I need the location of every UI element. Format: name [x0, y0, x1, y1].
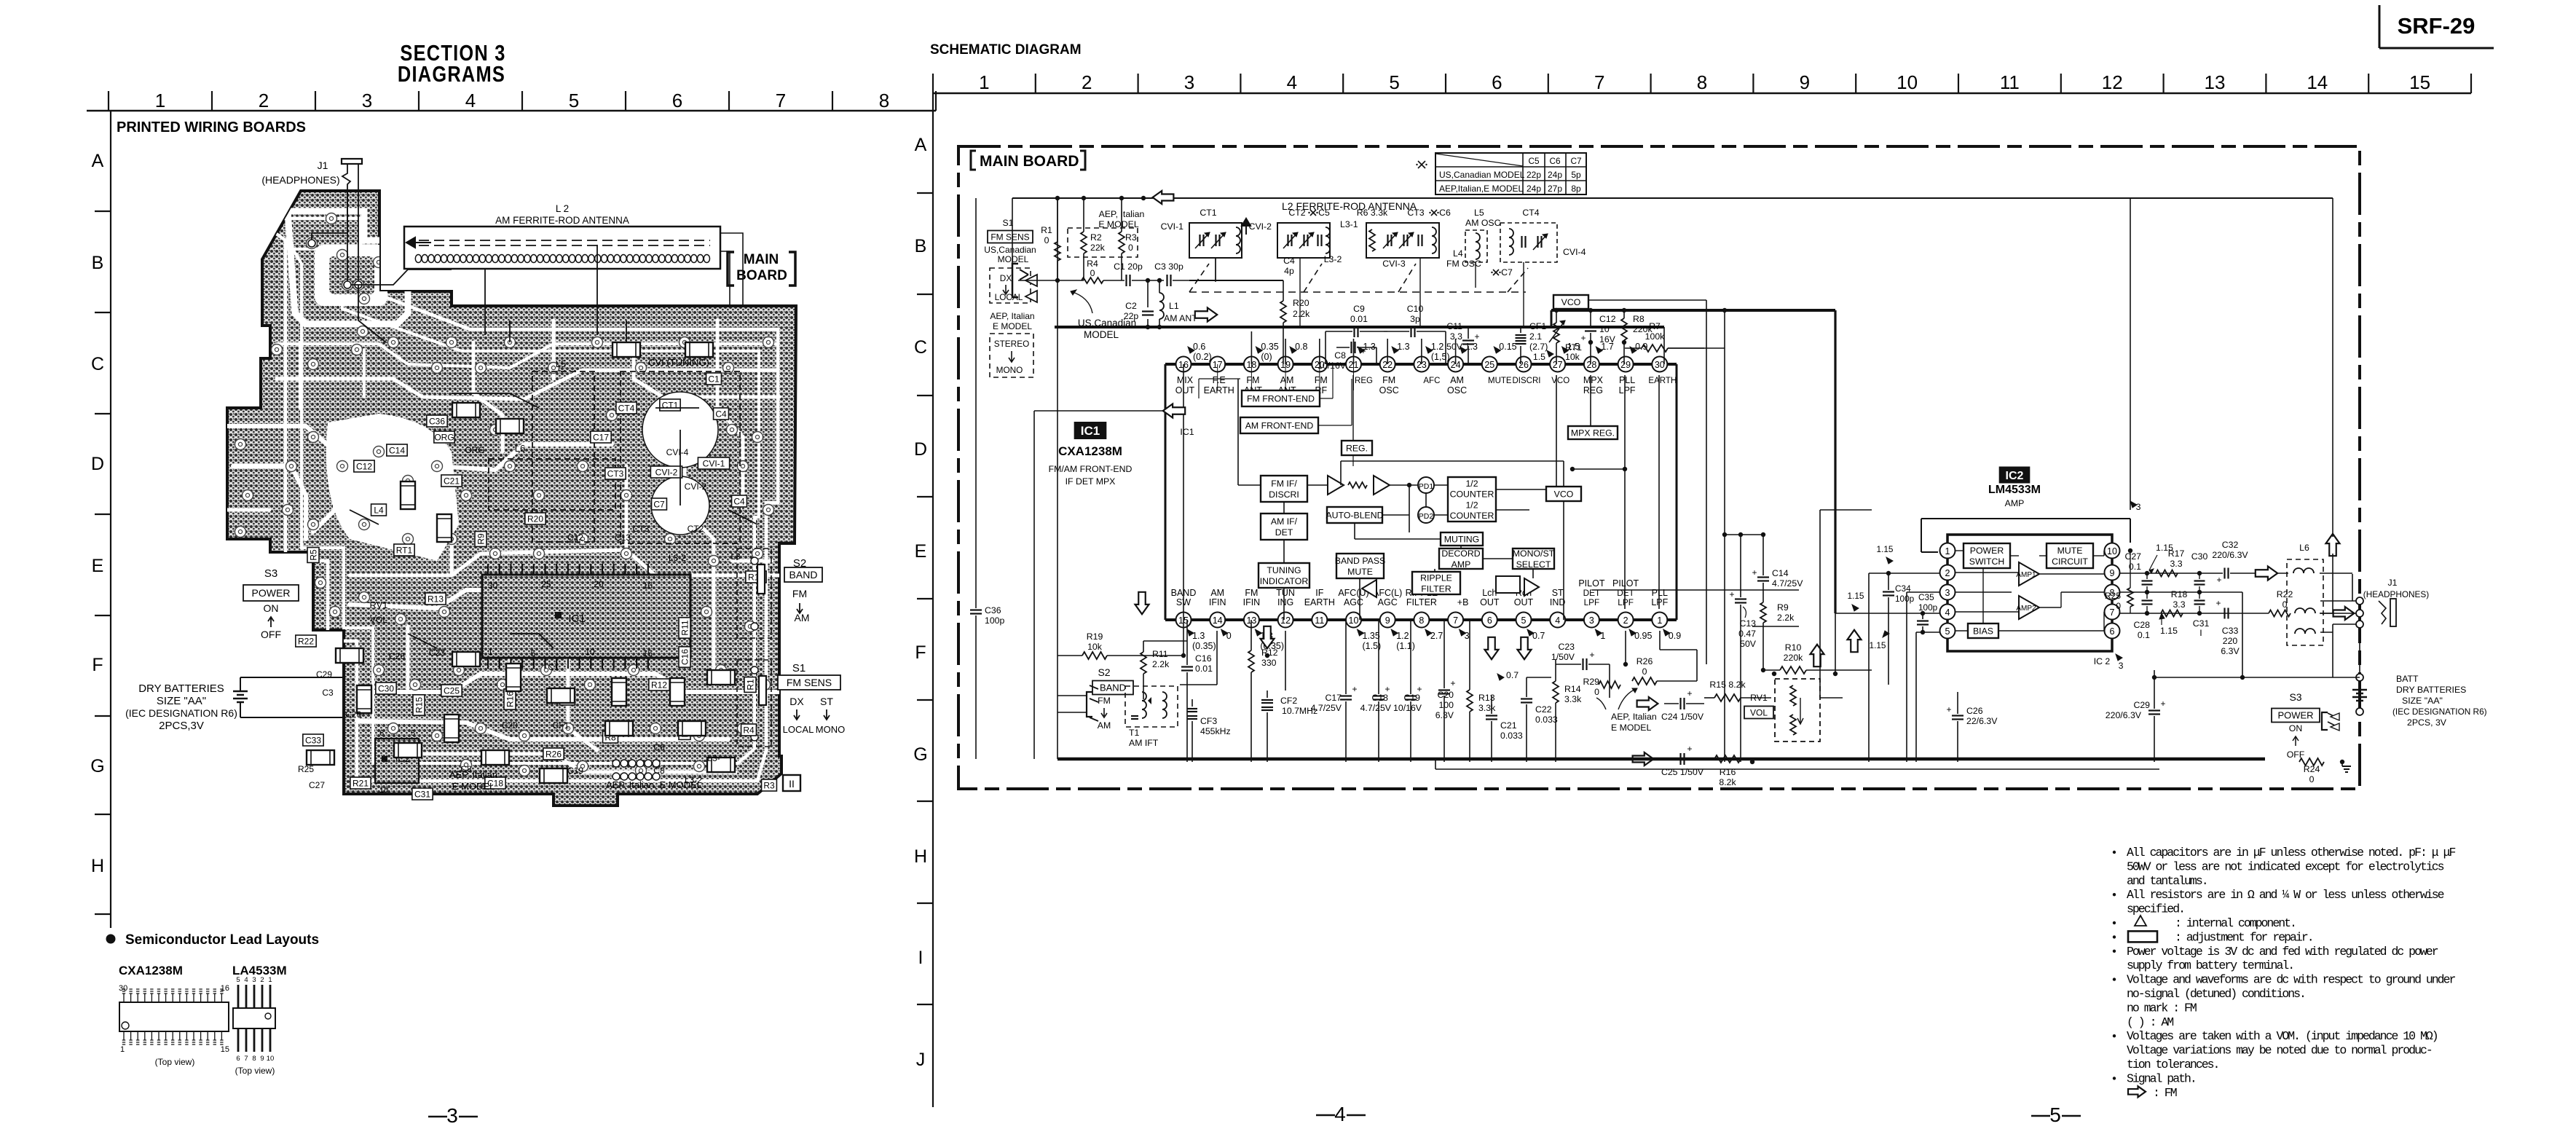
transformer T1 AM IFT: [1125, 686, 1178, 748]
svg-text:2.2k: 2.2k: [1293, 309, 1310, 319]
svg-text:+B: +B: [1457, 597, 1469, 607]
svg-text:AM IFT: AM IFT: [1129, 738, 1159, 748]
capacitor C16 0.01: [1181, 620, 1213, 762]
svg-text:DET: DET: [1617, 588, 1634, 598]
svg-text:330: 330: [1261, 658, 1277, 668]
electrolytic C17 4.7/25V: [1311, 620, 1358, 762]
svg-text:I: I: [2199, 628, 2202, 638]
svg-text:C13: C13: [1739, 618, 1756, 629]
svg-text:2: 2: [260, 976, 264, 984]
svg-text:EARTH: EARTH: [1648, 377, 1677, 385]
resistor R19 10k: [1057, 632, 1183, 659]
svg-text:C6: C6: [653, 742, 665, 752]
svg-text:C29: C29: [2133, 700, 2150, 710]
svg-text:R14: R14: [1564, 684, 1581, 694]
svg-text:R1: R1: [1041, 225, 1052, 235]
svg-text:OSC: OSC: [1447, 385, 1467, 396]
resistor R9 2.2k: [1760, 599, 1795, 672]
capacitor C22 0.033: [1521, 677, 1558, 762]
svg-text:1.5: 1.5: [1533, 352, 1545, 362]
svg-text:+: +: [1946, 704, 1951, 715]
svg-text:F.E: F.E: [1213, 375, 1226, 385]
svg-text:LOCAL: LOCAL: [995, 292, 1023, 302]
wire pin27 column: [1556, 375, 1557, 487]
svg-text:3.3k: 3.3k: [1478, 703, 1496, 713]
svg-text:J: J: [916, 1050, 926, 1070]
svg-text:220/6.3V: 220/6.3V: [2212, 550, 2248, 560]
svg-text:MUTE: MUTE: [1488, 377, 1512, 385]
wire stubs tuning blocks: [1216, 258, 1524, 327]
svg-text:15: 15: [2409, 71, 2430, 93]
svg-text:3: 3: [252, 976, 256, 984]
svg-text:IC1: IC1: [1180, 427, 1194, 437]
IC1 internal: VCO box: [1546, 487, 1581, 501]
svg-text:PILOT: PILOT: [1612, 578, 1639, 589]
svg-text:12: 12: [2102, 71, 2123, 93]
svg-text:CT4: CT4: [1522, 208, 1539, 218]
svg-text:6: 6: [379, 729, 384, 738]
svg-text:DRY BATTERIES: DRY BATTERIES: [138, 682, 224, 695]
svg-text:R20: R20: [1293, 298, 1309, 308]
svg-text:10/16V: 10/16V: [1317, 361, 1347, 371]
ceramic filter CF2 10.7MHz: [1261, 691, 1317, 762]
svg-text:AM: AM: [795, 612, 810, 623]
IC1 internal: blend triangle: [1362, 580, 1376, 597]
svg-text:+: +: [1687, 744, 1692, 754]
svg-text:D: D: [91, 454, 104, 474]
svg-text:L2 FERRITE-ROD ANTENNA: L2 FERRITE-ROD ANTENNA: [1282, 200, 1417, 212]
svg-text:CT4: CT4: [618, 403, 635, 413]
svg-text:0.15: 0.15: [1499, 342, 1516, 352]
svg-text:LPF: LPF: [1619, 385, 1636, 396]
svg-text:DET: DET: [1275, 527, 1293, 538]
svg-text:PD1: PD1: [1419, 482, 1434, 491]
svg-text:VCO: VCO: [1551, 377, 1569, 385]
svg-text:All resistors are in Ω and ¼: All resistors are in Ω and ¼ W or less u…: [2127, 888, 2444, 902]
wire below ground bus: [1057, 198, 2159, 769]
svg-text:AM: AM: [1280, 375, 1294, 385]
svg-text:R9: R9: [1777, 602, 1789, 613]
svg-text:100p: 100p: [1918, 602, 1938, 613]
svg-text:Voltage and waveforms are dc w: Voltage and waveforms are dc with respec…: [2127, 973, 2455, 987]
IC1 bottom pins 15-1: [1171, 578, 1669, 628]
svg-text:1.3: 1.3: [1192, 631, 1205, 641]
svg-text:15: 15: [221, 1045, 229, 1054]
capacitor C11 3.3 50V: [1446, 321, 1479, 364]
svg-text:Lch: Lch: [1482, 588, 1497, 598]
signal arrow down (fm ifin): [1261, 626, 1275, 648]
resistor R24 0: [2299, 758, 2342, 784]
svg-text:C26: C26: [345, 709, 361, 720]
resistor R10 220k: [1763, 642, 1872, 674]
capacitor C3 30p: [1154, 261, 1189, 286]
svg-text:(HEADPHONES): (HEADPHONES): [261, 174, 339, 186]
svg-text:10/16V: 10/16V: [1393, 703, 1422, 713]
svg-text:PLL: PLL: [1619, 375, 1635, 385]
signal arrow before C24: [1637, 697, 1658, 710]
svg-text:C1 20p: C1 20p: [1114, 261, 1143, 272]
svg-text:7: 7: [1453, 615, 1458, 626]
svg-text:Semiconductor Lead Layouts: Semiconductor Lead Layouts: [125, 932, 319, 948]
svg-text:C2: C2: [1125, 301, 1137, 311]
electrolytic C32 220/6.3V: [2212, 540, 2248, 585]
svg-text:14: 14: [2307, 71, 2328, 93]
main board dashed outline: [958, 146, 2360, 789]
svg-text:5: 5: [411, 729, 415, 738]
svg-text:1: 1: [1600, 631, 1605, 641]
svg-text:R29: R29: [1583, 677, 1599, 687]
svg-text:0.7: 0.7: [1532, 631, 1545, 641]
potentiometer RT1 10k: [1533, 308, 1582, 364]
long interconnect wires: [958, 198, 2029, 764]
svg-text:TUN: TUN: [1276, 588, 1295, 598]
svg-text:LPF: LPF: [1651, 597, 1668, 607]
svg-text:3: 3: [2136, 502, 2141, 512]
svg-text:CXA1238M: CXA1238M: [1058, 444, 1122, 458]
svg-text:R26: R26: [545, 749, 562, 759]
svg-text:AMP: AMP: [1452, 559, 1471, 570]
page number 5: [2031, 1103, 2081, 1126]
svg-text:0.9: 0.9: [1635, 342, 1647, 352]
svg-text:STEREO: STEREO: [994, 339, 1030, 349]
svg-text:LOCAL: LOCAL: [783, 724, 814, 735]
signal arrow down (band sw): [1135, 592, 1149, 614]
jumper wires on wiring board: [350, 233, 757, 648]
svg-text:CVI (TUNING): CVI (TUNING): [648, 357, 709, 368]
svg-text:(HEADPHONES): (HEADPHONES): [2363, 589, 2430, 599]
svg-text:OUT: OUT: [1514, 597, 1534, 607]
svg-text:6: 6: [1487, 615, 1492, 626]
svg-text:3.3: 3.3: [2173, 599, 2185, 610]
svg-text:MUTE: MUTE: [2057, 546, 2083, 556]
svg-text:22p: 22p: [1527, 170, 1541, 180]
variable capacitor CV1 (tuning) box on wiring board: [621, 357, 740, 543]
svg-text:CVI-2: CVI-2: [685, 481, 707, 492]
wire pin28 column: [1590, 375, 1591, 426]
svg-text:(0.2): (0.2): [1193, 352, 1212, 362]
svg-text:C25 1/50V: C25 1/50V: [1661, 767, 1704, 777]
resistor R26 0: [1632, 656, 1657, 685]
switch S3 POWER label (left board): [243, 567, 299, 640]
svg-text:LA4533M: LA4533M: [232, 964, 287, 977]
svg-text:AM FERRITE-ROD ANTENNA: AM FERRITE-ROD ANTENNA: [495, 215, 629, 226]
svg-text:E MODEL: E MODEL: [1611, 723, 1652, 733]
svg-text:C32: C32: [2222, 540, 2239, 550]
svg-text:16: 16: [643, 581, 653, 591]
svg-text:MAIN BOARD: MAIN BOARD: [980, 153, 1079, 170]
svg-text:and tantalums.: and tantalums.: [2127, 874, 2207, 888]
svg-text:L4: L4: [374, 505, 384, 515]
svg-text:455kHz: 455kHz: [1200, 726, 1231, 736]
svg-text:REG.: REG.: [1346, 443, 1368, 453]
svg-text:10k: 10k: [1087, 642, 1103, 652]
svg-text:R19: R19: [1087, 632, 1103, 642]
svg-text:R26: R26: [1636, 656, 1653, 666]
svg-text:SIZE "AA": SIZE "AA": [2402, 696, 2443, 706]
svg-text:R18: R18: [2171, 589, 2188, 599]
svg-text:220k: 220k: [1784, 653, 1804, 663]
svg-text:E: E: [92, 556, 104, 576]
svg-text:7: 7: [2110, 607, 2115, 618]
inductor L6 dashed box: [2287, 543, 2323, 645]
svg-text:All capacitors are in μF unles: All capacitors are in μF unless otherwis…: [2127, 846, 2455, 859]
svg-text:MPX REG.: MPX REG.: [1571, 428, 1615, 438]
svg-text:6.3V: 6.3V: [2221, 646, 2240, 656]
AM ferrite-rod antenna L2: [404, 203, 720, 269]
svg-text:C24 1/50V: C24 1/50V: [1661, 712, 1704, 722]
svg-text:(Top view): (Top view): [235, 1066, 275, 1076]
wire pin14 column down: [1180, 631, 1217, 685]
svg-text:R9: R9: [476, 533, 486, 545]
svg-text:ST: ST: [820, 696, 833, 707]
svg-text:OUT: OUT: [1480, 597, 1500, 607]
svg-text:4: 4: [1945, 607, 1950, 618]
svg-text:CT2: CT2: [688, 524, 704, 534]
IC1 bottom pin voltage labels: [1187, 629, 1681, 651]
svg-text:Power voltage is 3V dc and fe: Power voltage is 3V dc and fed with regu…: [2127, 945, 2438, 959]
svg-text:AM FRONT-END: AM FRONT-END: [1245, 420, 1314, 430]
capacitor C34 100p: [1877, 544, 1915, 685]
svg-text:AM OSC: AM OSC: [1465, 218, 1501, 228]
svg-text:7: 7: [776, 90, 786, 111]
svg-text:3: 3: [1465, 631, 1470, 641]
svg-text:1: 1: [155, 90, 165, 111]
svg-text:22p: 22p: [1124, 311, 1139, 321]
IC1 internal wires: [1183, 364, 1564, 620]
svg-text:+: +: [1752, 567, 1757, 578]
svg-text:FM: FM: [1246, 375, 1259, 385]
svg-text:22/6.3V: 22/6.3V: [1966, 716, 1998, 726]
svg-text:R15: R15: [414, 697, 424, 713]
inductor L1 AM ANT: [1157, 278, 1197, 327]
main board copper pattern (printed wiring board): [227, 191, 796, 806]
svg-text:BAND: BAND: [789, 569, 818, 581]
IC IC1 on wiring board: [482, 564, 690, 669]
svg-text:: adjustment for repair.: : adjustment for repair.: [2175, 930, 2313, 944]
svg-text:FM: FM: [1245, 588, 1258, 598]
svg-text:REG: REG: [1583, 385, 1603, 396]
signal arrow to L6: [2256, 567, 2277, 581]
resistor R1: [1041, 198, 1060, 280]
svg-text:R13: R13: [428, 594, 444, 604]
svg-text:(1.1): (1.1): [1396, 641, 1415, 651]
S1 STEREO/MONO labels: [990, 311, 1035, 377]
svg-text:AM ANT: AM ANT: [1164, 313, 1197, 323]
svg-text:C36: C36: [985, 605, 1001, 615]
svg-text:2: 2: [1945, 568, 1950, 578]
IC1 internal block: AUTO-BLEND: [1326, 507, 1383, 523]
svg-text:7: 7: [244, 1055, 248, 1063]
svg-text:S2: S2: [1098, 666, 1110, 678]
svg-text:C19: C19: [1403, 693, 1420, 703]
svg-text:CVI-2: CVI-2: [1249, 221, 1272, 232]
coil rows on wiring board: [613, 760, 660, 780]
svg-text:C20: C20: [502, 720, 518, 731]
svg-text:R7: R7: [1649, 321, 1661, 331]
svg-text:no mark : FM: no mark : FM: [2127, 1001, 2197, 1015]
svg-text:S3: S3: [264, 567, 277, 580]
svg-text:4: 4: [244, 976, 248, 984]
svg-text:2: 2: [1082, 71, 1092, 93]
svg-text:100k: 100k: [1645, 331, 1666, 342]
wires: tuning row to pins: [1018, 258, 1592, 364]
inner loop wires right: [2320, 198, 2356, 677]
svg-text:1.15: 1.15: [1848, 591, 1864, 601]
svg-text:C5: C5: [1528, 156, 1540, 166]
svg-text:15: 15: [643, 648, 653, 658]
coil L6 box on wiring board: [489, 443, 615, 510]
svg-text:2.2k: 2.2k: [1152, 659, 1170, 669]
wire pin12 column down: [1285, 631, 1286, 691]
heading: PRINTED WIRING BOARDS: [117, 119, 306, 135]
svg-text:ING: ING: [1277, 597, 1293, 607]
S1 DX/LOCAL dashed box: [990, 268, 1031, 303]
svg-text:5: 5: [569, 90, 579, 111]
resistor R2 22k + R3 0 dashed (AEP): [1068, 196, 1144, 280]
svg-text:(1,5): (1,5): [1431, 352, 1450, 362]
svg-text:16V: 16V: [1599, 334, 1616, 345]
svg-text:US,Canadian: US,Canadian: [984, 245, 1036, 255]
svg-text:13: 13: [2205, 71, 2226, 93]
svg-text:RV1: RV1: [369, 599, 387, 610]
svg-text:C12: C12: [1599, 314, 1616, 324]
svg-text:+: +: [1474, 331, 1479, 342]
svg-text:C28: C28: [2133, 620, 2150, 630]
svg-text:0: 0: [1044, 235, 1049, 245]
svg-text:IC1: IC1: [1081, 424, 1100, 438]
svg-text:PD2: PD2: [1419, 512, 1434, 521]
svg-text:ST: ST: [1552, 588, 1564, 598]
battery + dry batteries text (left): [125, 677, 344, 732]
svg-text:FM SENS: FM SENS: [990, 232, 1029, 242]
svg-text:I: I: [918, 948, 923, 968]
svg-text:+: +: [2215, 598, 2221, 608]
svg-text:0.7: 0.7: [1506, 670, 1519, 680]
svg-text:IF DET MPX: IF DET MPX: [1066, 476, 1116, 487]
svg-text:1.2: 1.2: [1396, 631, 1409, 641]
electrolytic C25 1/50V: [1661, 744, 1704, 777]
svg-text:: FM: : FM: [2153, 1086, 2177, 1100]
svg-text:RV1: RV1: [1750, 693, 1768, 703]
title: SECTION 3 DIAGRAMS: [398, 41, 506, 87]
capacitor C21 0.033: [1486, 696, 1523, 762]
svg-text:0.1: 0.1: [2138, 630, 2150, 640]
svg-text:CIRCUIT: CIRCUIT: [2052, 556, 2088, 567]
svg-text:SIZE "AA": SIZE "AA": [157, 695, 206, 707]
svg-text:FM IF/: FM IF/: [1271, 479, 1297, 489]
svg-text:+: +: [1450, 678, 1455, 688]
svg-text:0.9: 0.9: [1669, 631, 1681, 641]
svg-text:ORG: ORG: [465, 445, 484, 455]
IC IC2 on wiring board: [375, 729, 419, 795]
svg-text:AMP2: AMP2: [2016, 605, 2036, 613]
capacitor CF1 2.1 (2.7): [1516, 321, 1548, 364]
IC1 internal: amp triangles: [1328, 476, 1390, 495]
svg-text:IC 2: IC 2: [2094, 656, 2111, 666]
page number 4: [1316, 1103, 1366, 1125]
svg-text:IC2: IC2: [2006, 470, 2024, 482]
CXA1238M package drawing: [119, 964, 229, 1067]
svg-text:R3: R3: [1125, 232, 1137, 243]
model number box SRF-29: [2379, 5, 2494, 48]
svg-text:II: II: [789, 778, 795, 790]
L2 ferrite rod antenna label (schematic): [1282, 200, 1417, 212]
svg-text:0: 0: [1642, 666, 1647, 677]
svg-text:C1: C1: [708, 374, 720, 384]
voltage 1.15 near C27: [2149, 543, 2173, 573]
svg-text:F: F: [92, 655, 103, 675]
svg-text:CT3: CT3: [633, 524, 650, 534]
svg-text:C20: C20: [1437, 690, 1454, 700]
svg-text:C19: C19: [567, 766, 583, 776]
svg-text:AUTO-BLEND: AUTO-BLEND: [1326, 510, 1383, 520]
IC1 internal: mono/st triangle + box: [1496, 576, 1539, 596]
svg-text:0.033: 0.033: [1500, 731, 1523, 741]
svg-text:AEP, Italian: AEP, Italian: [1611, 712, 1657, 722]
svg-text:25: 25: [541, 579, 551, 589]
svg-text:(2.7): (2.7): [1529, 342, 1548, 352]
svg-text:50WV or less are not indicated: 50WV or less are not indicated except fo…: [2127, 859, 2444, 873]
svg-text:14: 14: [1213, 615, 1223, 626]
electrolytic C29 220/6.3V: [2106, 670, 2166, 762]
capacitor C23 1/50V: [1551, 642, 1610, 670]
IC1 internal block: MONO/ST SELECT: [1513, 548, 1555, 570]
svg-text:Signal path.: Signal path.: [2127, 1071, 2196, 1085]
wire: main thick bus y449: [1055, 326, 1664, 328]
svg-text:L3-2: L3-2: [1324, 254, 1342, 264]
resistor R4 0: [1082, 259, 1103, 283]
svg-text:IFIN: IFIN: [1209, 597, 1226, 607]
svg-text:5: 5: [1521, 615, 1527, 626]
capacitor C30: [2191, 551, 2208, 594]
svg-text:EARTH: EARTH: [1204, 385, 1234, 396]
svg-text:1: 1: [979, 71, 989, 93]
svg-text:S1: S1: [792, 662, 806, 674]
svg-text:C33: C33: [305, 735, 321, 745]
svg-text:ON: ON: [264, 602, 279, 614]
svg-text:SELECT: SELECT: [1516, 559, 1551, 570]
svg-text:LPF: LPF: [1618, 597, 1634, 607]
svg-text:B: B: [92, 253, 104, 273]
svg-text:MONO: MONO: [996, 365, 1023, 375]
svg-text:30: 30: [1655, 360, 1665, 370]
AM FRONT-END box: [1240, 417, 1318, 433]
svg-text:RIPPLE: RIPPLE: [1420, 573, 1452, 583]
svg-text:G: G: [90, 756, 104, 776]
svg-text:DISCRI: DISCRI: [1269, 489, 1299, 500]
svg-text:9: 9: [1800, 71, 1810, 93]
svg-text:0: 0: [2116, 601, 2121, 611]
svg-text:PILOT: PILOT: [1578, 578, 1604, 589]
svg-text:C25: C25: [444, 685, 460, 696]
svg-text:29: 29: [1620, 360, 1631, 370]
svg-text:PRINTED WIRING BOARDS: PRINTED WIRING BOARDS: [117, 119, 306, 135]
svg-text:C: C: [914, 337, 927, 358]
svg-text:4.7/25V: 4.7/25V: [1360, 703, 1392, 713]
svg-text:C6: C6: [1549, 156, 1561, 166]
svg-text:27: 27: [1553, 360, 1563, 370]
resistor R18 3.3: [2161, 589, 2187, 617]
capacitor C35 100p: [1917, 592, 1938, 634]
svg-text:BAND PASS: BAND PASS: [1335, 556, 1385, 566]
svg-text:MONO: MONO: [816, 724, 845, 735]
svg-text:100: 100: [1438, 700, 1454, 710]
electrolytic C24 1/50V: [1661, 688, 1704, 722]
svg-text:IFIN: IFIN: [1243, 597, 1261, 607]
resistor R3 label (wiring board): [762, 779, 777, 791]
svg-text:C16: C16: [1195, 653, 1212, 664]
svg-text:8: 8: [252, 1055, 256, 1063]
